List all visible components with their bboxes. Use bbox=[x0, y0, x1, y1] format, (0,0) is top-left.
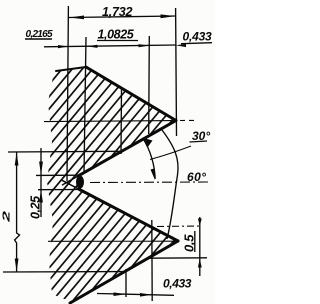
upper flank of tooth 2 bbox=[80, 190, 179, 242]
valley centerline dash-dot bbox=[90, 181, 210, 184]
extension line x=86 (root flat line) bbox=[84, 37, 86, 174]
pitch dim extension line bottom (y=272) bbox=[3, 271, 124, 273]
pitch dim extension line top (y=151.5) bbox=[8, 150, 121, 153]
leader to 30 deg label bbox=[150, 146, 191, 160]
lower flank of tooth 1 bbox=[80, 121, 177, 176]
svg-text:0,25: 0,25 bbox=[29, 195, 43, 219]
extension line x=126 at tooth 2 lower flank bbox=[125, 269, 127, 297]
svg-text:0,433: 0,433 bbox=[183, 30, 213, 44]
upper flank of tooth 1 bbox=[86, 67, 176, 121]
arrow tip at x=68 pointing right bbox=[58, 45, 68, 48]
dimension line 2 (pitch), vertical with break bbox=[15, 152, 20, 272]
arrow tip at x=126 pointing right bbox=[114, 292, 127, 296]
dimension line 1.732 bbox=[68, 16, 175, 18]
valley construction X (flank extensions) bbox=[62, 169, 90, 195]
extension line x=152 at tooth 2 bbox=[151, 220, 153, 301]
centerline through tooth2 apex bbox=[48, 240, 177, 242]
arrow tip at x=176 pointing left bbox=[176, 44, 186, 47]
centerline through tooth1 apex bbox=[44, 121, 172, 122]
extension line x=176 (sharp crest line) bbox=[175, 8, 178, 136]
paper background bbox=[0, 0, 215, 304]
thread profile outline bbox=[56, 67, 178, 303]
lower flank of tooth 2 bbox=[70, 241, 178, 303]
valley scan blotch bbox=[76, 176, 84, 189]
dimension rail y=46 bbox=[44, 45, 176, 47]
0.25 extension lines bbox=[36, 174, 79, 176]
arrow tip at x=86 pointing left bbox=[86, 45, 98, 48]
extension line x=68 (root line) bbox=[67, 6, 68, 181]
0.5 top extension dash line y=226 bbox=[157, 225, 200, 228]
arrow right of 1.732 bbox=[161, 14, 176, 18]
arrowhead of 30 deg arc at centerline bbox=[151, 168, 156, 180]
svg-text:1,0825: 1,0825 bbox=[98, 28, 135, 42]
dimension line 0.25 vertical bbox=[40, 148, 42, 217]
arrow up at y=152 bbox=[15, 152, 19, 165]
arrow up to 258 bbox=[198, 258, 202, 267]
60 degree arc bbox=[162, 130, 178, 239]
arrow tip at x=149 pointing right bbox=[139, 44, 150, 47]
extension line x=149 bbox=[148, 36, 151, 134]
svg-text:2: 2 bbox=[1, 211, 12, 223]
arrow up to y=189.5 bbox=[39, 190, 43, 203]
svg-text:1,732: 1,732 bbox=[102, 5, 133, 19]
root flat of valley bbox=[78, 175, 81, 189]
30 degree arc centered at valley bbox=[143, 138, 155, 179]
arrow down to y=175.2 bbox=[39, 162, 43, 176]
svg-text:60°: 60° bbox=[187, 170, 206, 184]
arrow left of 1.732 bbox=[69, 16, 84, 20]
bottom dimension line 0.433 bbox=[97, 294, 174, 296]
arrow down at y=272 bbox=[15, 259, 19, 272]
0.5 bottom extension line y=258 bbox=[147, 257, 207, 259]
extension line x=121.5 (pitch line vertical) bbox=[120, 88, 123, 154]
arrow down to 226 bbox=[198, 219, 202, 227]
svg-text:0,433: 0,433 bbox=[163, 277, 192, 291]
top break edge of material bbox=[56, 67, 86, 71]
dimension line 0.5 vertical bbox=[199, 217, 201, 276]
arrowhead of 30 deg arc on flank bbox=[142, 138, 152, 148]
arrow tip at x=152 pointing right bbox=[140, 293, 152, 297]
